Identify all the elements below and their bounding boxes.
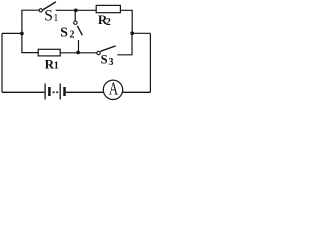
switch S2 riser from node T1 down to contact (74, 10, 76, 21)
wire R1 to node C (60, 52, 78, 54)
switch S3 contact circle (97, 51, 100, 54)
wire from node A left to outer edge (2, 32, 22, 34)
resistor R1 box (38, 49, 60, 56)
wire from node B right to outer edge (132, 32, 150, 34)
wire node A down and right to R1 (22, 33, 38, 52)
switch S2 lower stub down to node C (78, 40, 80, 52)
node B junction dot (130, 31, 134, 35)
wire bottom left segment to battery (2, 91, 44, 93)
switch S2 contact circle (74, 21, 77, 24)
wire bottom between battery and ammeter (66, 91, 104, 93)
wire R2 to top-right corner, down to node B (120, 10, 132, 33)
ammeter A1 circle (103, 80, 122, 99)
switch S1 contact circle (39, 9, 42, 12)
battery BT short plate 2 (63, 87, 66, 96)
svg-text:A: A (109, 79, 118, 99)
wire S1 right contact to node T1 (56, 9, 76, 11)
wire outer right edge vertical (149, 33, 151, 92)
resistor R2 box (96, 5, 120, 12)
node C junction dot (76, 51, 80, 55)
wire bottom right segment from ammeter to corner (122, 91, 150, 93)
battery BT long plate 1 (44, 84, 46, 100)
wire node T1 to R2 (76, 9, 96, 11)
switch S1 blade (43, 2, 56, 10)
switch S2 blade (77, 26, 82, 35)
wire outer left edge vertical (1, 33, 3, 92)
wire S3 right contact up to node B (117, 33, 132, 55)
battery BT short plate 1 (48, 87, 51, 96)
node T1 junction dot (74, 9, 78, 13)
switch S3 blade (100, 46, 115, 51)
node A junction dot (20, 32, 24, 36)
battery BT dotted gap (53, 91, 59, 93)
battery BT long plate 2 (59, 84, 61, 100)
wire node C to S3 contact (78, 52, 97, 54)
wire riser from node A up and top horizontal to S1 (22, 10, 39, 33)
